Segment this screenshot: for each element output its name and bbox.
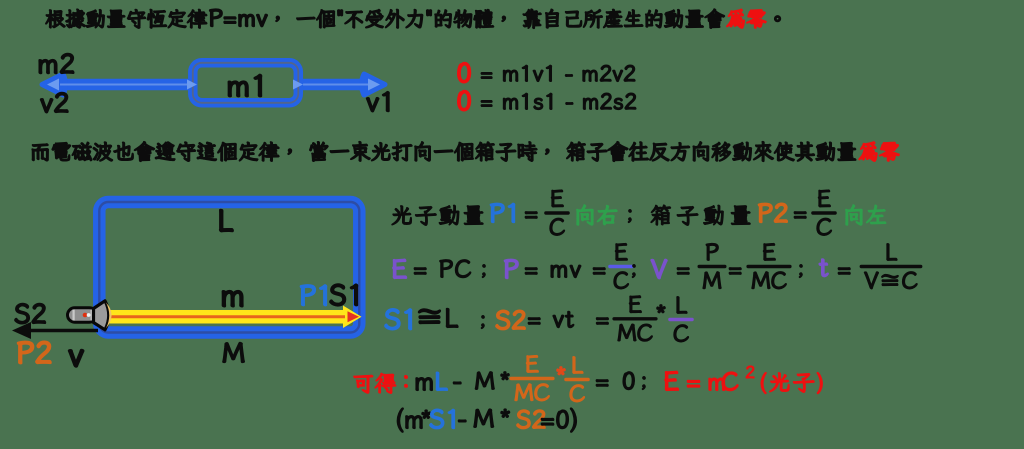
label P1 (blue) <box>301 285 327 305</box>
formula2 fraction P/M denominator <box>703 272 721 289</box>
formula2 fraction E/C (blue bar) bar <box>610 265 632 268</box>
formula3: S1 (blue) <box>385 309 411 329</box>
formula2: ；#3 <box>799 265 802 278</box>
formula4: = (red) <box>688 381 700 387</box>
formula2 fraction E/C (blue bar) numerator <box>616 244 628 261</box>
formula5: - <box>459 420 466 422</box>
formula2 fraction L/(V≅C) denominator <box>865 272 917 289</box>
label m2 <box>39 54 73 74</box>
formula2: E (purple) <box>393 259 406 278</box>
formula2: V (purple) <box>651 260 667 279</box>
rod mid-left arrowhead <box>187 80 197 90</box>
formula2 fraction E/C (blue bar) denominator <box>614 272 628 289</box>
light beam (yellow) <box>108 306 362 329</box>
text line1: 。 <box>775 16 781 22</box>
formula5: * <box>501 409 509 417</box>
formula4 fraction E/MC (orange) bar <box>511 377 553 380</box>
label v <box>69 350 83 367</box>
formula2: P (purple) <box>505 260 518 279</box>
formula1 fraction E/C denominator <box>550 218 564 235</box>
text line1: 不受外力 <box>345 9 423 28</box>
label P2 (orange) <box>18 342 51 364</box>
formula1: 向右 (green) <box>577 205 617 225</box>
equation2: = m1s1 - m2s2 <box>481 93 635 109</box>
formula1: ； <box>628 210 631 223</box>
rod right arrowhead (light) <box>368 79 380 91</box>
text line1: 根據動量守恆定律 <box>46 9 207 28</box>
formula2: ； <box>482 265 485 278</box>
formula4: = 0 <box>596 372 634 390</box>
formula4: 可得 (red) <box>354 373 396 393</box>
formula4: * (red-orange) <box>557 367 565 375</box>
formula3: L <box>447 309 458 328</box>
formula1 fraction E/C bar <box>546 211 568 214</box>
formula1 fraction E/C #2 bar <box>813 211 835 214</box>
formula3 fraction E/MC numerator <box>630 296 642 313</box>
formula4 fraction L/C (orange) denominator <box>570 385 584 402</box>
formula4: m <box>416 378 432 390</box>
formula4: L (blue) <box>436 372 447 390</box>
label v2 <box>41 93 68 113</box>
formula4 fraction L/C (orange) bar <box>566 378 588 381</box>
formula4: - M <box>454 372 495 389</box>
formula1: 箱子動量 <box>651 205 750 225</box>
formula3: = vt = <box>528 312 608 328</box>
label m1 inside box <box>229 75 262 97</box>
formula1: = <box>525 212 537 218</box>
formula1: P1 (blue) <box>491 204 515 223</box>
formula2 fraction E/MC numerator <box>764 244 776 261</box>
formula5: (m <box>398 408 422 432</box>
formula5: * <box>422 410 430 418</box>
text line1: close quote <box>427 10 431 15</box>
formula3 fraction L/C (purple bar) numerator <box>677 297 687 313</box>
formula4: m (red) <box>709 378 724 390</box>
formula2 fraction L/(V≅C) bar <box>861 265 920 268</box>
label S1 <box>330 284 357 305</box>
arrow S2 (pointing left) <box>12 322 98 339</box>
formula4: E (red) <box>665 371 678 390</box>
formula2 fraction E/MC denominator <box>752 272 786 289</box>
label v1 <box>367 92 389 112</box>
formula1 fraction E/C #2 denominator <box>817 218 831 235</box>
text line1: open quote <box>338 10 342 15</box>
formula5: S1 (blue) <box>430 409 454 428</box>
formula1: second = <box>794 212 806 218</box>
formula2: = #3 <box>838 268 850 274</box>
formula5: M <box>474 409 493 427</box>
formula2: t (purple) <box>819 259 828 276</box>
formula4: C (red) <box>722 372 738 390</box>
formula3: S2 (orange) <box>496 310 525 329</box>
formula2 fraction P/M bar <box>699 265 725 268</box>
formula1 fraction E/C numerator <box>552 190 564 207</box>
formula3 fraction L/C (purple bar) bar <box>670 318 692 321</box>
text line1: 的物體靠自己所產生的動量會 <box>435 9 724 28</box>
formula4: * <box>501 372 509 380</box>
label m (above beam) <box>223 291 243 306</box>
formula2: = mv = <box>525 265 605 277</box>
formula4 fraction L/C (orange) numerator <box>573 357 583 373</box>
formula5: =0) <box>542 408 577 432</box>
formula4: ： (red) <box>405 376 408 387</box>
formula4 fraction E/MC (orange) denominator <box>515 384 549 401</box>
equation2: 0 (red) <box>458 91 470 111</box>
equation1: 0 (red) <box>458 63 470 83</box>
formula3: ； <box>481 316 484 329</box>
formula2 fraction L/(V≅C) numerator <box>887 244 897 260</box>
formula2: = #2 <box>729 268 741 274</box>
text line1: 一個 <box>276 10 335 28</box>
formula3 fraction E/MC denominator <box>618 324 652 341</box>
label S2 <box>15 304 45 324</box>
formula1 fraction E/C #2 numerator <box>819 190 831 207</box>
formula1: P2 (orange) <box>759 203 788 222</box>
text line2: 為零 (red) <box>859 142 899 161</box>
formula2: = PC <box>414 260 470 278</box>
formula2: ；#2 <box>632 265 635 278</box>
formula3 fraction L/C (purple bar) denominator <box>674 325 688 342</box>
equation1: = m1v1 - m2v2 <box>481 65 635 81</box>
formula4: ； <box>642 377 645 390</box>
big box (container) <box>99 202 359 333</box>
formula2 fraction P/M numerator <box>706 244 718 261</box>
formula2: = <box>677 268 689 274</box>
formula3: ≅ <box>419 309 440 323</box>
formula1: 光子動量 <box>392 205 483 225</box>
label M (below box) <box>223 343 244 362</box>
formula2 fraction E/MC bar <box>748 265 790 268</box>
box m1 (rounded rect) <box>193 63 298 103</box>
formula3: * <box>657 305 665 313</box>
label L (top inside box) <box>220 210 233 231</box>
text line2 (black part) <box>32 142 855 162</box>
text line1: 為零 (red) <box>727 9 766 28</box>
formula5: S2 (orange) <box>517 410 545 428</box>
rod: blue bar between m2 and v1 <box>42 74 385 95</box>
rod mid-right arrowhead <box>293 80 303 90</box>
formula3 fraction E/MC bar <box>614 317 656 320</box>
flashlight <box>68 301 112 330</box>
rod left arrowhead (light) <box>47 79 59 91</box>
formula4: (光子) (red) <box>761 373 822 394</box>
formula4: superscript 2 (red) <box>746 366 754 378</box>
formula1: 向左 (green) <box>846 205 886 225</box>
formula4 fraction E/MC (orange) numerator <box>527 356 539 373</box>
text line1: P=mv <box>210 9 267 26</box>
